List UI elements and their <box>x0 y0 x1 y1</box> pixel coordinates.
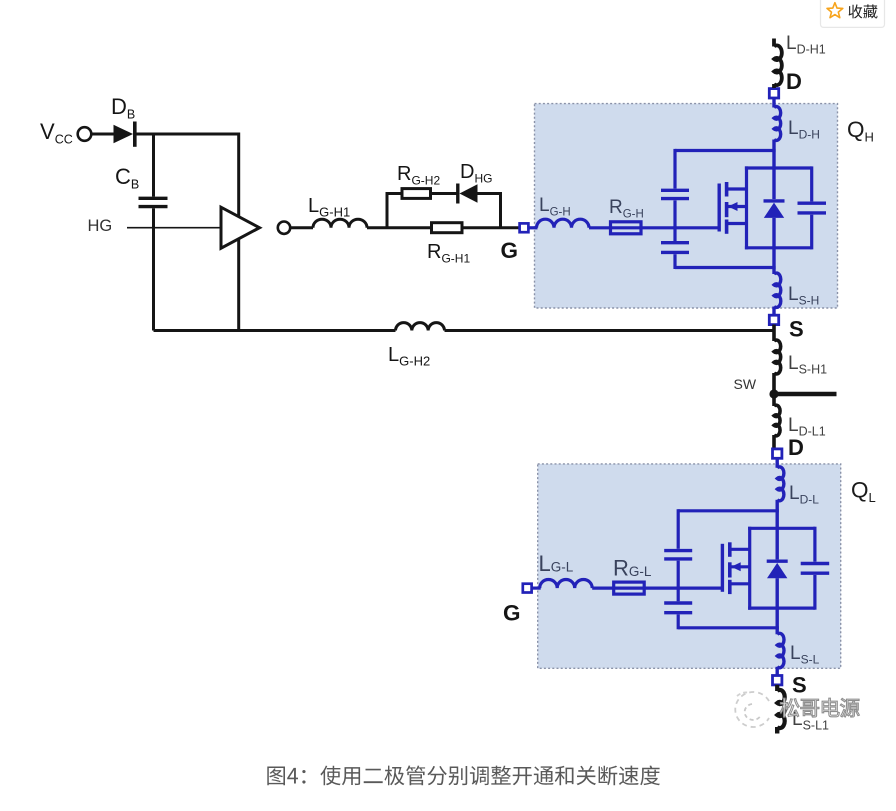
svg-text:LS-H1: LS-H1 <box>788 353 827 377</box>
svg-text:RG-H1: RG-H1 <box>427 241 470 266</box>
svg-text:S: S <box>789 317 804 342</box>
svg-text:CB: CB <box>115 164 139 192</box>
svg-text:DHG: DHG <box>460 161 492 186</box>
svg-text:D: D <box>788 435 804 460</box>
svg-text:LD-H1: LD-H1 <box>786 33 826 57</box>
svg-text:D: D <box>786 69 802 94</box>
svg-text:QL: QL <box>851 478 876 506</box>
svg-text:HG: HG <box>88 217 113 235</box>
svg-text:VCC: VCC <box>40 119 73 147</box>
svg-text:LG-H1: LG-H1 <box>308 195 350 220</box>
svg-text:QH: QH <box>847 117 874 145</box>
svg-text:LG-H2: LG-H2 <box>388 344 430 369</box>
svg-text:SW: SW <box>734 376 757 392</box>
svg-text:S: S <box>792 673 807 698</box>
svg-text:RG-H2: RG-H2 <box>397 163 440 188</box>
svg-text:DB: DB <box>111 94 135 122</box>
svg-text:G: G <box>501 238 519 263</box>
svg-text:G: G <box>503 601 521 626</box>
